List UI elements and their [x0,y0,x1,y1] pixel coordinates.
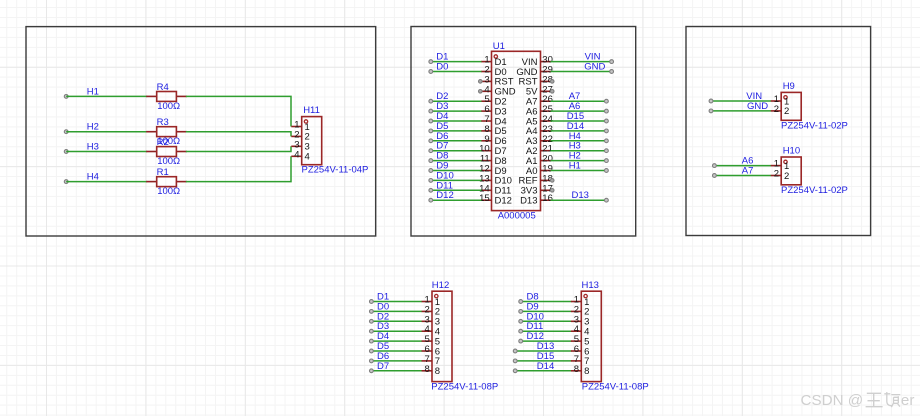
node D6 [370,351,390,363]
node D12 [519,331,544,343]
pin 2 of H11 [291,129,309,142]
svg-text:100Ω: 100Ω [157,186,180,197]
svg-text:D13: D13 [572,190,589,201]
body of R3 [157,127,177,137]
pin 2 (D0) of U1 [481,65,507,78]
node A7 [713,166,754,178]
node H1 [64,86,99,98]
body of H11 [302,117,322,165]
node VIN [709,91,762,103]
body of R4 [157,92,177,102]
wire net D0 to U1 pin 2 [431,71,482,73]
node D15 [513,351,554,363]
pin 6 (D3) of U1 [481,104,507,117]
pin 26 (A7) of U1 [526,94,553,107]
resistor R2 100&#937; [146,137,187,167]
unconnected stub dot, U1 pin 27 [550,90,554,94]
node D4 [370,331,390,343]
wire net D1 to U1 pin 1 [431,61,482,63]
svg-text:100Ω: 100Ω [157,156,180,167]
wire U1 pin 23 to net D14 [551,130,607,132]
node D7 [429,141,449,153]
pin 2 of H10 [771,169,789,182]
pin 2 of H12 [422,304,440,317]
pin 21 (A2) of U1 [526,144,553,157]
wire D6 to H12 pin 7 [371,360,422,362]
node D14 [567,121,609,133]
wire net D3 to U1 pin 6 [431,110,482,112]
svg-text:H12: H12 [432,280,449,291]
svg-text:PZ254V-11-08P: PZ254V-11-08P [582,382,649,393]
pin stubs of R2 [146,151,157,153]
connector H13 (PZ254V-11-08P) [571,280,649,393]
node A6 [713,156,754,168]
pin 7 of H13 [571,354,589,367]
pin 8 (D5) of U1 [481,124,507,137]
body of R1 [157,177,177,187]
svg-text:H13: H13 [582,280,599,291]
wire A6 to H10 pin 1 [714,165,771,167]
node D8 [429,151,449,163]
svg-text:PZ254V-11-08P: PZ254V-11-08P [431,382,498,393]
svg-text:U1: U1 [493,41,505,52]
wire net D12 to U1 pin 15 [431,199,482,201]
pin-1 marker of H12 [435,294,438,297]
wire net D7 to U1 pin 10 [431,150,482,152]
resistor R3 100&#937; [146,117,187,147]
node D5 [429,121,449,133]
svg-text:D7: D7 [377,361,389,372]
svg-text:CSDN @: CSDN @ [801,392,864,409]
wire net D2 to U1 pin 5 [431,100,482,102]
pin 2 of H13 [571,304,589,317]
pin 6 of H12 [422,344,440,357]
wire H2 to R3 [66,131,147,133]
node D9 [519,301,539,313]
pin 15 (D12) of U1 [479,193,512,206]
pin 19 (A0) of U1 [526,164,553,177]
svg-text:8: 8 [574,364,579,375]
svg-text:2: 2 [784,106,789,117]
pin 1 of H9 [771,94,789,107]
wire D10 to H13 pin 3 [521,320,572,322]
wire D5 to H12 pin 6 [371,350,422,352]
node H3 [569,141,609,153]
svg-text:16: 16 [542,193,553,204]
svg-text:A7: A7 [742,166,754,177]
pin-1 marker of H11 [304,120,307,123]
node H1 [569,161,609,173]
pin 8 of H12 [422,364,440,377]
body of U1 [492,51,541,210]
svg-text:D12: D12 [495,196,512,207]
wire R4 to H11 pin 1 [186,96,291,126]
node GND [709,101,768,113]
pin 4 of H12 [422,324,440,337]
wire D11 to H13 pin 4 [521,330,572,332]
svg-text:100Ω: 100Ω [157,101,180,112]
pin stubs of R1 [146,181,157,183]
unconnected stub dot, U1 pin 17 [550,189,554,193]
node D10 [429,170,454,182]
svg-text:D12: D12 [436,190,453,201]
pin-1 marker of U1 [494,55,497,58]
body of H9 [781,92,801,120]
svg-text:15: 15 [479,193,490,204]
unconnected stub dot, U1 pin 4 [479,90,483,94]
wire D8 to H13 pin 1 [521,301,572,303]
node D9 [429,161,449,173]
node H4 [64,172,99,184]
svg-text:R3: R3 [157,117,169,128]
svg-text:2: 2 [784,171,789,182]
wire net D5 to U1 pin 8 [431,130,482,132]
node A6 [569,101,609,113]
connector H9 (PZ254V-11-02P) [771,81,848,131]
pin stubs of R4 [146,95,157,97]
wire D12 to H13 pin 5 [521,340,572,342]
wire D3 to H12 pin 4 [371,330,422,332]
pin 17 (3V3) of U1 [521,183,553,196]
pin 20 (A1) of U1 [526,154,553,167]
wire U1 pin 24 to net D15 [551,120,607,122]
node D5 [370,341,390,353]
pin 5 (D2) of U1 [481,94,507,107]
wire GND to H9 pin 2 [711,110,771,112]
wire D0 to H12 pin 2 [371,310,422,312]
node A7 [569,91,609,103]
wire D1 to H12 pin 1 [371,301,422,303]
watermark CJK glyph dun [884,392,900,407]
pin 29 (GND) of U1 [516,65,553,78]
svg-text:4: 4 [294,149,299,160]
wire A7 to H10 pin 2 [714,175,771,177]
svg-text:4: 4 [305,152,310,163]
node D4 [429,111,449,123]
wire H3 to R2 [66,151,147,153]
wire R1 to H11 pin 4 [186,156,291,181]
pin 13 (D10) of U1 [479,173,512,186]
sheet partition box (resistor section) [26,27,376,236]
pin 7 (D4) of U1 [481,114,507,127]
pin 1 of H12 [422,295,440,308]
pin stubs of R3 [146,131,157,133]
wire net D8 to U1 pin 11 [431,160,482,162]
pin 8 of H13 [571,364,589,377]
svg-text:GND: GND [747,101,768,112]
svg-text:H11: H11 [303,105,320,116]
wire D15 to H13 pin 7 [515,360,571,362]
pin 3 of H11 [291,139,309,152]
svg-text:PZ254V-11-02P: PZ254V-11-02P [781,120,848,131]
svg-text:8: 8 [425,364,430,375]
svg-text:R1: R1 [157,167,169,178]
wire U1 pin 21 to net H3 [551,150,607,152]
connector H12 (PZ254V-11-08P) [422,280,499,393]
wire D7 to H12 pin 8 [371,370,422,372]
node D1 [370,292,390,304]
svg-text:D0: D0 [436,62,448,73]
node D13 [513,341,554,353]
node D7 [370,361,390,373]
node D14 [513,361,554,373]
wire net D9 to U1 pin 12 [431,170,482,172]
connector H10 (PZ254V-11-02P) [771,146,848,196]
svg-text:R4: R4 [157,82,169,93]
wire net D11 to U1 pin 14 [431,189,482,191]
pin 25 (A6) of U1 [526,104,553,117]
node D12 [429,190,454,202]
node H2 [64,122,99,134]
svg-text:8: 8 [584,366,589,377]
pin 1 (D1) of U1 [481,55,507,68]
wire R3 to H11 pin 2 [186,132,291,137]
svg-text:A000005: A000005 [498,210,536,221]
pin 22 (A3) of U1 [526,134,553,147]
pin 5 of H12 [422,334,440,347]
pin 16 (D13) of U1 [520,193,553,206]
pin 28 (RST) of U1 [519,74,553,87]
wire D9 to H13 pin 2 [521,310,572,312]
svg-text:er: er [901,392,915,409]
pin-1 marker of H10 [784,160,787,163]
node D11 [429,180,453,192]
node D3 [429,101,449,113]
resistor R4 100&#937; [146,82,187,112]
pin 6 of H13 [571,344,589,357]
connector H11 (PZ254V-11-04P) [291,105,368,176]
svg-text:8: 8 [435,366,440,377]
wire U1 pin 25 to net A6 [551,110,607,112]
pin 23 (A4) of U1 [526,124,553,137]
pin-1 marker of H13 [584,294,587,297]
pin 1 of H11 [291,120,309,133]
svg-text:PZ254V-11-02P: PZ254V-11-02P [781,185,848,196]
node H3 [64,142,99,154]
IC U1 (A000005 Arduino Nano symbol) [479,41,553,221]
body of H12 [432,291,452,381]
pin 11 (D8) of U1 [480,154,507,167]
node GND [584,62,613,74]
svg-text:H10: H10 [783,146,800,157]
wire U1 pin 29 to net GND [551,71,612,73]
wire U1 pin 16 to net D13 [551,199,607,201]
wire H4 to R1 [66,181,147,183]
pin 3 of H12 [422,314,440,327]
svg-text:2: 2 [774,104,779,115]
pin 4 of H13 [571,324,589,337]
wire H1 to R4 [66,95,147,97]
wire U1 pin 26 to net A7 [551,100,607,102]
pin 18 (REF) of U1 [519,173,553,186]
pin 4 of H11 [291,149,309,162]
pin 7 of H12 [422,354,440,367]
body of H13 [581,291,601,381]
wire R2 to H11 pin 3 [186,146,291,151]
node D10 [519,311,544,323]
wire net D6 to U1 pin 9 [431,140,482,142]
node D15 [567,111,609,123]
wire U1 pin 30 to net VIN [551,61,612,63]
node D2 [370,311,390,323]
svg-text:D14: D14 [537,361,554,372]
watermark CJK glyph wang [866,393,883,406]
pin 27 (5V) of U1 [526,84,553,97]
pin 24 (A5) of U1 [526,114,553,127]
node D13 [572,190,609,202]
wire U1 pin 20 to net H2 [551,160,607,162]
wire D14 to H13 pin 8 [515,370,571,372]
node D2 [429,91,449,103]
unconnected stub dot, U1 pin 28 [550,80,554,84]
svg-text:GND: GND [584,62,605,73]
pin 3 (RST) of U1 [481,74,514,87]
unconnected stub dot, U1 pin 18 [550,179,554,183]
svg-text:2: 2 [774,169,779,180]
node D0 [429,62,449,74]
pin 2 of H9 [771,104,789,117]
wire U1 pin 19 to net H1 [551,170,607,172]
wire D13 to H13 pin 6 [515,350,571,352]
body of H10 [781,157,801,185]
wire VIN to H9 pin 1 [711,100,771,102]
pin 1 of H10 [771,159,789,172]
svg-text:R2: R2 [157,137,169,148]
node D3 [370,321,390,333]
svg-text:H1: H1 [569,161,581,172]
node VIN [585,52,614,64]
svg-text:PZ254V-11-04P: PZ254V-11-04P [302,165,369,176]
unconnected stub dot, U1 pin 3 [479,80,483,84]
pin 1 of H13 [571,295,589,308]
wire net D10 to U1 pin 13 [431,179,482,181]
wire D4 to H12 pin 5 [371,340,422,342]
wire D2 to H12 pin 3 [371,320,422,322]
pin 10 (D7) of U1 [479,144,507,157]
sheet partition box (MCU section) [411,27,636,237]
node D6 [429,131,449,143]
pin 3 of H13 [571,314,589,327]
sheet partition box (aux header section) [686,27,871,236]
pin 30 (VIN) of U1 [522,55,553,68]
node D0 [370,301,390,313]
pin 4 (GND) of U1 [481,84,516,97]
node H2 [569,151,609,163]
wire net D4 to U1 pin 7 [431,120,482,122]
body of R2 [157,147,177,157]
pin 12 (D9) of U1 [479,164,507,177]
pin-1 marker of H9 [784,96,787,99]
pin 5 of H13 [571,334,589,347]
resistor R1 100&#937; [146,167,187,197]
svg-text:D13: D13 [520,196,537,207]
node H4 [569,131,609,143]
pin 9 (D6) of U1 [481,134,507,147]
node D11 [519,321,543,333]
wire U1 pin 22 to net H4 [551,140,607,142]
node D1 [429,52,449,64]
pin 14 (D11) of U1 [479,183,511,196]
svg-text:H9: H9 [783,81,795,92]
node D8 [519,292,539,304]
